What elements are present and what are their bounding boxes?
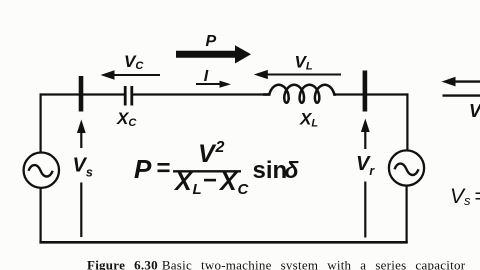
wire: right side (below source): [406, 185, 408, 243]
arrow Vl (points left): [254, 70, 341, 79]
arrow Vs (upward, head segment): [77, 120, 86, 149]
arrow I (points right): [196, 81, 231, 88]
inductor L (line reactance Xl): [263, 85, 336, 103]
arrow Vs (upward, lower segment): [80, 183, 82, 238]
svg-text:=: =: [157, 155, 171, 182]
svg-text:C: C: [238, 181, 250, 198]
svg-text:sin: sin: [253, 157, 288, 184]
capacitor C (series capacitor Xc): [125, 86, 132, 106]
wire: top side (left of capacitor): [41, 93, 124, 95]
wire: left side (top of source): [39, 93, 41, 153]
svg-text:I: I: [204, 68, 209, 85]
adjacent-figure phasor arrow (cut off at right edge): [442, 77, 480, 87]
svg-text:V: V: [469, 101, 480, 121]
wire: bottom side: [39, 241, 407, 244]
svg-text:2: 2: [215, 139, 225, 156]
equation P = V^2/(Xl-Xc) sin(delta): [134, 139, 300, 198]
svg-text:Figure 6.30Basic two-machine s: Figure 6.30Basic two-machine system with…: [87, 258, 466, 270]
bus bar (right, receiving end): [363, 71, 368, 112]
wire: top side (inductor to right corner): [333, 93, 408, 95]
wire: right side (top of source): [406, 93, 408, 151]
arrow Vr (upward, head segment): [361, 119, 370, 150]
svg-text:L: L: [193, 181, 202, 198]
svg-text:V: V: [198, 140, 217, 168]
arrow P (thick power-flow arrow): [176, 45, 251, 63]
generator G1 (left AC source): [24, 153, 59, 188]
svg-text:−: −: [203, 167, 217, 194]
adjacent-figure phasor baseline (cut off at right edge): [443, 94, 480, 96]
svg-text:X: X: [173, 168, 193, 196]
arrow Vr (upward, lower segment): [364, 182, 366, 238]
wire: left side (below source): [39, 188, 41, 243]
svg-text:P: P: [134, 154, 152, 184]
generator G2 (right AC source): [389, 150, 424, 185]
wire: top side (capacitor to inductor): [133, 93, 270, 95]
svg-text:X: X: [218, 168, 238, 196]
svg-text:P: P: [206, 33, 217, 50]
arrow Vc (points left): [101, 70, 161, 80]
svg-text:δ: δ: [285, 157, 300, 183]
bus bar (left, sending end): [79, 76, 84, 112]
